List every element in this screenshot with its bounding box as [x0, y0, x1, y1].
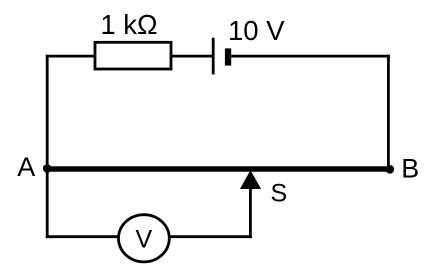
slide wire A-B (thick) [47, 166, 390, 172]
svg-text:B: B [401, 154, 419, 184]
wire right vertical [387, 55, 390, 169]
resistor R1 (1 kΩ) [95, 42, 171, 69]
wire left vertical [46, 55, 49, 238]
wire top left segment [46, 55, 95, 58]
slider S arrowhead [240, 170, 261, 189]
svg-text:S: S [271, 179, 288, 207]
node B junction dot [386, 165, 395, 174]
svg-text:1 kΩ: 1 kΩ [100, 9, 157, 40]
svg-text:A: A [17, 152, 35, 182]
wire slider vertical [249, 189, 252, 239]
wire battery to top right [231, 55, 390, 58]
wire bottom left segment [46, 235, 119, 238]
battery long plate [212, 38, 215, 75]
svg-text:V: V [136, 226, 153, 254]
svg-text:10 V: 10 V [228, 15, 285, 46]
voltmeter V [118, 215, 169, 262]
battery short thick plate [225, 48, 231, 65]
wire resistor to battery [171, 55, 213, 58]
node A junction dot [43, 164, 52, 173]
wire bottom right segment [169, 235, 252, 238]
